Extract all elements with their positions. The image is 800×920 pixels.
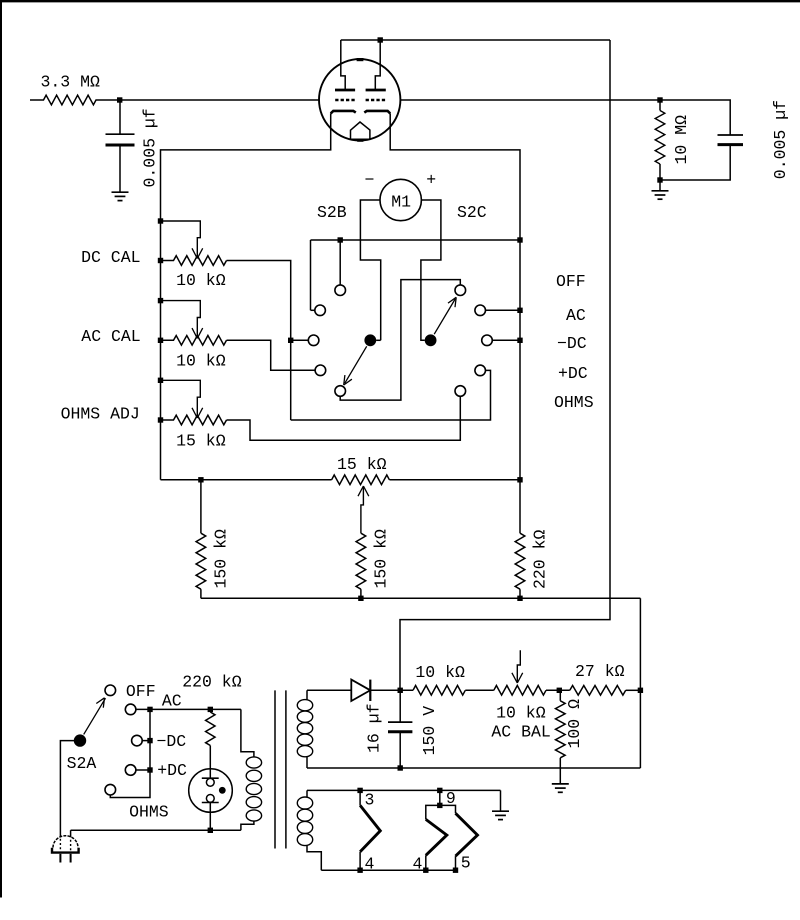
switch S2A wiper arrow: [84, 698, 106, 734]
potentiometer R6 15k body: [161, 479, 332, 481]
resistor R1 3.3 M&#937; input: [30, 95, 320, 105]
svg-text:−: −: [365, 171, 375, 190]
svg-text:150 V: 150 V: [420, 706, 439, 756]
wire pin9 drop: [439, 790, 441, 805]
potentiometer R4 AC CAL 10k body: [161, 336, 227, 346]
node bus-bottom right: [517, 477, 522, 482]
svg-text:S2B: S2B: [317, 203, 347, 222]
capacitor C1 0.005 uf input: [119, 100, 121, 134]
switch S2B wiper arrow: [345, 346, 367, 383]
wire heater bottom rail: [321, 869, 455, 871]
ground 100 ohm: [552, 783, 569, 785]
node bus pot1 top: [158, 218, 163, 223]
svg-text:S2C: S2C: [457, 203, 487, 222]
wire plate top: [341, 39, 610, 41]
tube V1 cathode left: [331, 111, 356, 114]
svg-text:100 Ω: 100 Ω: [565, 699, 584, 749]
node AC BAL right: [557, 688, 562, 693]
svg-text:10 MΩ: 10 MΩ: [672, 115, 691, 165]
transformer T1 secondary HV: [306, 690, 308, 700]
heater H2 pins 9-4: [426, 805, 440, 819]
resistor R2 10 M&#937;: [659, 100, 661, 111]
wire pot2 out: [227, 340, 316, 370]
svg-text:220 kΩ: 220 kΩ: [182, 673, 242, 692]
svg-text:DC CAL: DC CAL: [81, 248, 140, 267]
transformer T1 core: [274, 690, 276, 848]
wire pot1 out: [227, 261, 291, 421]
node grid-right junction: [657, 97, 662, 102]
node filter cap bottom: [398, 765, 403, 770]
svg-text:OHMS: OHMS: [129, 802, 169, 821]
node bus pot2 left: [158, 338, 163, 343]
svg-text:+: +: [426, 170, 436, 189]
wire meter minus lead: [360, 200, 380, 340]
wire cathode row line: [311, 239, 521, 241]
switch S2A pole: [74, 734, 86, 746]
transformer T1 primary: [241, 709, 254, 757]
tube V1 plate right: [366, 89, 386, 92]
svg-text:AC CAL: AC CAL: [81, 327, 140, 346]
svg-text:150 kΩ: 150 kΩ: [212, 529, 231, 589]
node pot1-line S2B -DC: [288, 338, 293, 343]
wire PSU bottom rail: [307, 767, 640, 769]
svg-text:AC: AC: [566, 306, 586, 325]
transformer T1 secondary filament: [306, 790, 308, 797]
node heater rail pin9: [437, 788, 442, 793]
wire S2B row1 to bus: [310, 240, 312, 310]
lamp I1 neon pilot: [189, 769, 233, 813]
potentiometer R5 OHMS ADJ 15k wiper: [161, 380, 201, 418]
node heater bot pin5: [453, 868, 458, 873]
resistor R8 150k middle: [356, 533, 366, 589]
wire S2A pole to plug: [60, 741, 74, 837]
svg-text:10 kΩ: 10 kΩ: [176, 352, 226, 371]
node R2 bottom: [657, 177, 662, 182]
node rail 220k: [517, 596, 522, 601]
node heater bot pin4a: [357, 868, 362, 873]
wire cathode left: [161, 113, 331, 479]
wire plate supply down right side: [400, 40, 610, 690]
resistor R14 220k: [206, 712, 215, 746]
svg-text:AC: AC: [162, 691, 182, 710]
capacitor C3 16uf: [399, 690, 401, 722]
svg-text:−DC: −DC: [557, 334, 587, 353]
svg-text:10 kΩ: 10 kΩ: [496, 703, 546, 722]
svg-text:16 µf: 16 µf: [365, 703, 384, 753]
svg-text:150 kΩ: 150 kΩ: [372, 529, 391, 589]
svg-text:3: 3: [365, 791, 375, 810]
wire S2C AC to bus: [485, 309, 520, 311]
svg-text:OFF: OFF: [126, 682, 156, 701]
node filter cap top: [398, 688, 403, 693]
resistor R10 10k: [413, 686, 465, 696]
tube V1 heater: [351, 122, 370, 139]
svg-text:10 kΩ: 10 kΩ: [176, 271, 226, 290]
wire S2A +DC stub: [136, 769, 150, 771]
capacitor C2 0.005 uf right: [660, 100, 730, 135]
node bus pot2 top: [158, 298, 163, 303]
node heater bot pin4b: [423, 868, 428, 873]
potentiometer R3 DC CAL 10k body: [161, 256, 227, 266]
svg-text:AC BAL: AC BAL: [491, 722, 550, 741]
wire cathode right: [390, 113, 520, 479]
wire B-minus rail: [201, 597, 641, 599]
node rail 150k mid: [358, 596, 363, 601]
diode D1: [307, 689, 351, 691]
potentiometer R5 OHMS ADJ 15k body: [161, 415, 227, 425]
meter M1: [380, 179, 421, 220]
potentiometer R11 wiper: [517, 650, 520, 683]
tube V1 cathode right: [364, 111, 390, 114]
resistor R13 100 ohm: [559, 690, 561, 701]
svg-text:0.005 µf: 0.005 µf: [141, 108, 160, 187]
node S2A bus top: [147, 707, 152, 712]
svg-text:M1: M1: [391, 192, 411, 211]
svg-text:10 kΩ: 10 kΩ: [415, 663, 465, 682]
node lamp bottom: [208, 828, 213, 833]
svg-text:OHMS ADJ: OHMS ADJ: [61, 405, 140, 424]
switch S2A contact +DC: [125, 765, 136, 776]
resistor R12 27k: [570, 686, 626, 696]
switch S2C contact +DC: [475, 365, 486, 376]
heater H1 pins 3-4: [359, 790, 361, 805]
switch S2C contact AC: [475, 305, 486, 316]
node row line S2B: [338, 237, 343, 242]
svg-text:15 kΩ: 15 kΩ: [176, 431, 226, 450]
tube V1 plate left: [335, 89, 355, 92]
wire junction to S2B -DC: [291, 339, 309, 341]
node bus pot3 left: [158, 417, 163, 422]
heater H3 pins 9-5: [440, 805, 456, 813]
switch S2C contact OHMS: [455, 386, 466, 397]
ground heater: [500, 790, 502, 811]
node 220k top: [208, 707, 213, 712]
switch S2B contact OHMS: [335, 386, 346, 397]
wire lamp to rail: [209, 803, 211, 831]
node S2A bus +DC: [147, 767, 152, 772]
wire S2B OHMS to S2C OFF: [340, 280, 460, 401]
svg-text:27 kΩ: 27 kΩ: [575, 662, 625, 681]
ground input cap: [112, 191, 129, 193]
potentiometer R4 AC CAL 10k wiper: [161, 301, 201, 339]
wire grid right: [401, 99, 660, 101]
potentiometer R3 DC CAL 10k wiper: [161, 221, 201, 259]
switch S2C pole: [425, 334, 437, 346]
wire S2C -DC to bus: [492, 339, 520, 341]
switch S2B contact -DC: [308, 335, 319, 346]
switch S2B pole: [364, 334, 376, 346]
wire S2A -DC stub: [142, 740, 150, 742]
svg-text:+DC: +DC: [157, 761, 187, 780]
svg-text:S2A: S2A: [67, 754, 97, 773]
wire meter plus lead: [421, 200, 441, 340]
node 27k right: [638, 688, 643, 693]
svg-text:OFF: OFF: [556, 272, 586, 291]
switch S2C contact OFF: [455, 285, 466, 296]
svg-text:−DC: −DC: [157, 732, 187, 751]
tube V1 grid left: [335, 99, 355, 101]
node row line bus right: [517, 237, 522, 242]
wire rail to 27k: [639, 598, 641, 768]
switch S2C contact -DC: [482, 335, 493, 346]
wire S2A OHMS to bus: [110, 709, 150, 797]
svg-text:OHMS: OHMS: [554, 393, 594, 412]
tube V1 grid right: [366, 99, 386, 101]
switch S2C wiper arrow: [434, 299, 455, 334]
node S2A bus -DC: [147, 738, 152, 743]
node bus pot1 left: [158, 258, 163, 263]
resistor R9 220k right: [519, 480, 521, 533]
switch S2B contact OFF: [335, 285, 346, 296]
node heater mid junction: [437, 803, 442, 808]
node plate junction: [378, 37, 383, 42]
wire S2C +DC return to pot1: [291, 370, 491, 420]
potentiometer R6 wiper from below: [361, 486, 364, 533]
svg-text:5: 5: [461, 854, 471, 873]
wire pot3 out: [227, 396, 461, 440]
switch S2A contact OFF: [105, 685, 116, 696]
switch S2A contact -DC: [132, 735, 143, 746]
resistor R7 150k left: [200, 480, 202, 533]
svg-text:220 kΩ: 220 kΩ: [531, 529, 550, 589]
switch S2B contact +DC: [315, 365, 326, 376]
wire S2A AC rail: [136, 708, 241, 710]
ground 10M: [659, 180, 661, 191]
switch S2A contact OHMS: [105, 784, 116, 795]
tube V1 envelope: [319, 59, 400, 140]
node S2C -DC bus: [517, 338, 522, 343]
switch S2B contact AC: [315, 305, 326, 316]
plug P1 AC: [53, 836, 78, 848]
svg-text:0.005 µf: 0.005 µf: [771, 100, 790, 179]
node bus pot3 top: [158, 378, 163, 383]
svg-text:15 kΩ: 15 kΩ: [337, 455, 387, 474]
potentiometer R11 AC BAL 10k: [494, 686, 546, 696]
wire S2B OFF contact up: [339, 240, 341, 285]
switch S2A contact AC: [125, 704, 136, 715]
wire heater top rail: [307, 789, 501, 791]
node input junction: [117, 97, 122, 102]
svg-text:+DC: +DC: [558, 364, 588, 383]
wire AC bottom rail: [71, 829, 241, 831]
node heater rail pin3: [357, 788, 362, 793]
node S2C AC bus: [517, 308, 522, 313]
svg-text:3.3 MΩ: 3.3 MΩ: [41, 73, 101, 92]
node bus-bottom left: [198, 477, 203, 482]
